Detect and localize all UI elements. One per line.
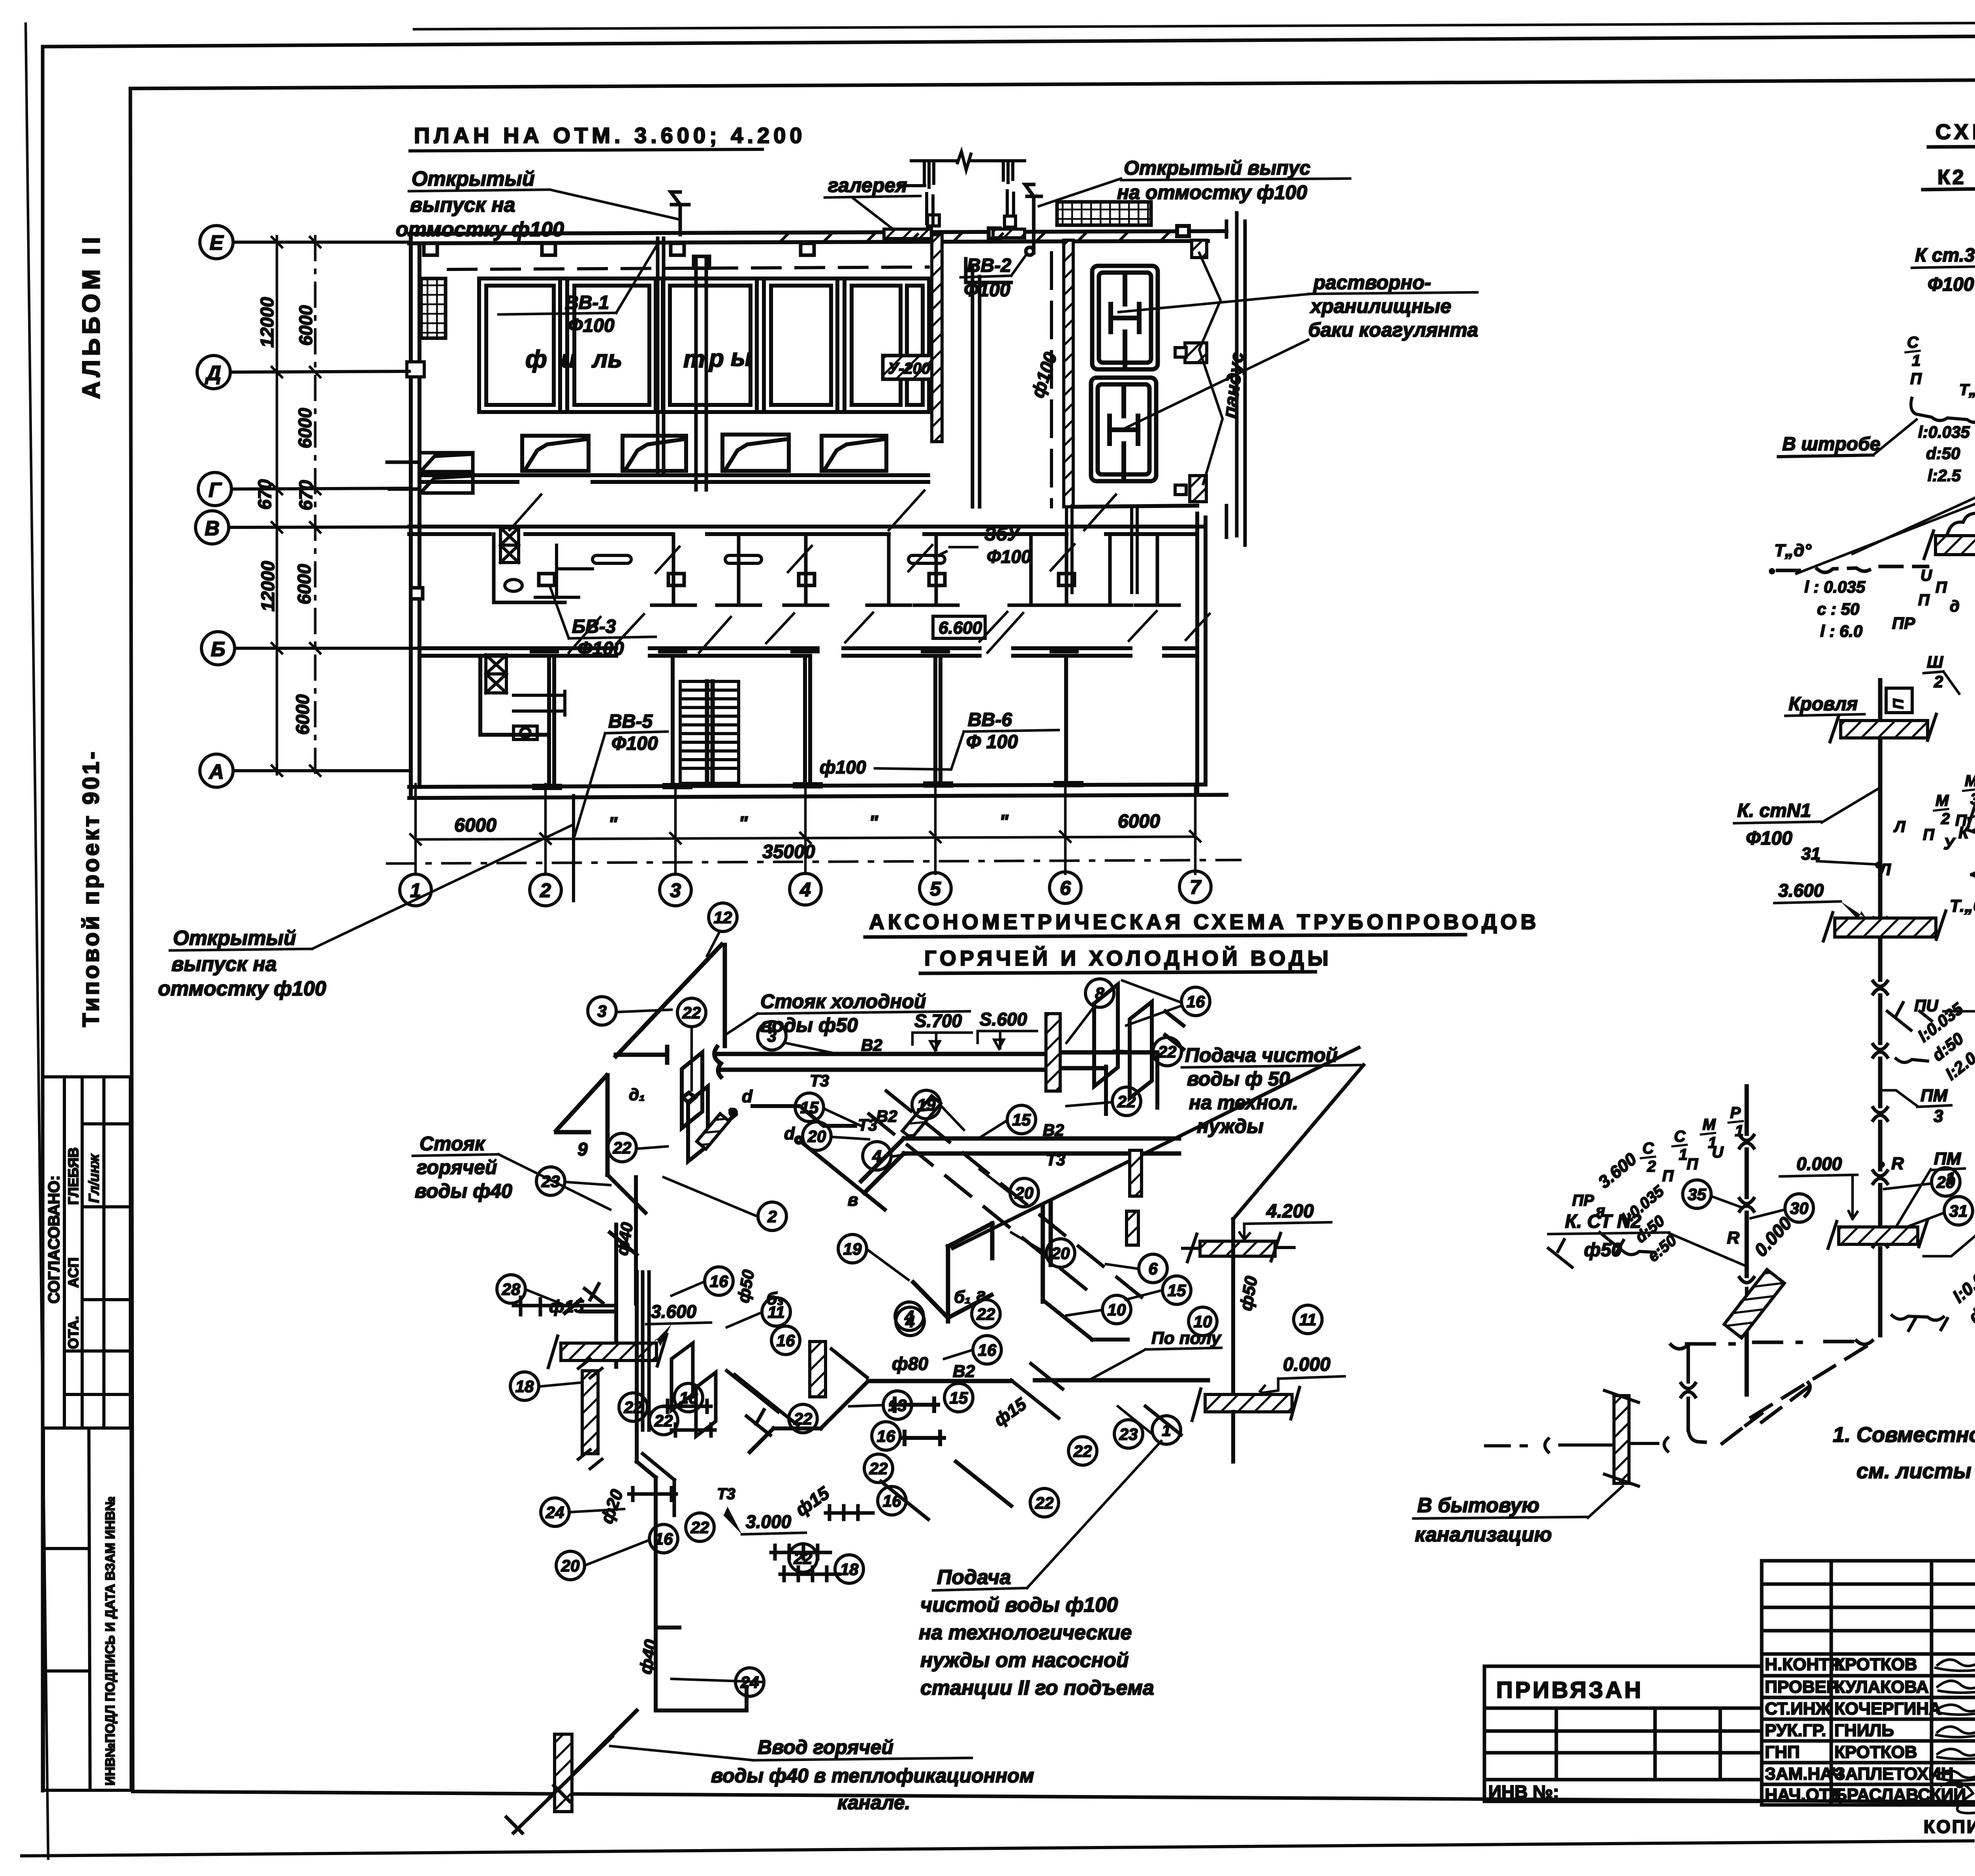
lower room partitions: T-posts row V-B xyxy=(494,534,1179,605)
grating top-left crosshatched xyxy=(421,278,446,338)
svg-text:20: 20 xyxy=(807,1127,826,1146)
svg-text:22: 22 xyxy=(654,1411,673,1430)
svg-text:Т.„б: Т.„б xyxy=(1950,896,1975,916)
svg-text:18: 18 xyxy=(840,1560,859,1579)
svg-text:АКСОНОМЕТРИЧЕСКАЯ СХЕМА ТРУБОП: АКСОНОМЕТРИЧЕСКАЯ СХЕМА ТРУБОПРОВОДОВ xyxy=(869,910,1540,934)
svg-text:22: 22 xyxy=(794,1549,813,1567)
svg-text:Стояк: Стояк xyxy=(419,1133,486,1155)
svg-text:Л: Л xyxy=(1893,818,1906,835)
svg-text:Т3: Т3 xyxy=(1046,1150,1065,1169)
svg-text:Ф100: Ф100 xyxy=(1746,828,1793,849)
svg-text:А: А xyxy=(208,760,224,783)
anchors zigzag leader xyxy=(1199,253,1223,484)
filter hall block xyxy=(479,278,929,412)
label coagulant tanks xyxy=(1308,271,1478,341)
hatched wall B xyxy=(1064,240,1073,507)
wall top outer xyxy=(409,231,1226,234)
svg-text:Ф100: Ф100 xyxy=(577,638,624,659)
svg-text:3: 3 xyxy=(670,879,681,901)
svg-text:6000: 6000 xyxy=(1118,811,1160,832)
svg-text:7: 7 xyxy=(1190,876,1202,898)
fractions near stack top xyxy=(1893,771,1975,843)
svg-text:19: 19 xyxy=(843,1240,862,1258)
thin diagonals xyxy=(1796,481,1975,574)
door swing strokes above B wall xyxy=(616,544,1209,644)
svg-text:9: 9 xyxy=(577,1139,588,1159)
big parallelogram plane xyxy=(953,1048,1364,1248)
svg-text:К. стN1: К. стN1 xyxy=(1737,800,1811,821)
svg-text:выпуск на: выпуск на xyxy=(171,953,277,976)
coagulant tank 2 xyxy=(1091,378,1156,481)
svg-text:я: я xyxy=(1595,1202,1605,1219)
svg-text:Ф100: Ф100 xyxy=(568,315,615,336)
svg-text:16: 16 xyxy=(978,1341,997,1359)
lower room partitions: row B-A xyxy=(480,656,1066,784)
svg-text:М: М xyxy=(1965,772,1975,790)
table B inventory strip xyxy=(43,1428,131,1790)
outlet riser top-left of gallery xyxy=(1025,184,1041,255)
riser under 4.200 xyxy=(1231,1219,1235,1414)
svg-text:Открытый выпус: Открытый выпус xyxy=(1124,157,1311,179)
svg-text:22: 22 xyxy=(624,1398,643,1417)
svg-text:3: 3 xyxy=(767,1027,776,1045)
hatch bar under 0.000 right xyxy=(1839,1227,1918,1244)
svg-text:S.700: S.700 xyxy=(914,1010,962,1031)
svg-text:ПРОВЕР.: ПРОВЕР. xyxy=(1765,1677,1840,1697)
grating strip top xyxy=(1057,202,1151,225)
svg-text:Ф100: Ф100 xyxy=(964,280,1010,301)
hatched slant plate xyxy=(1967,764,1975,837)
svg-text:ОТА.: ОТА. xyxy=(65,1316,81,1349)
hatched wall A xyxy=(932,235,942,442)
table A congratulation xyxy=(43,1077,130,1428)
corridor wall G row xyxy=(419,475,928,482)
svg-text:23: 23 xyxy=(541,1172,560,1191)
podacha chistoy 100 label xyxy=(919,1566,1154,1699)
standpipe through filters col3 xyxy=(658,238,709,490)
bottom grid circles xyxy=(400,871,1211,906)
big triangle riser xyxy=(616,945,725,1063)
pandus ramp lines xyxy=(1226,213,1245,545)
label: open outlet top-right xyxy=(1117,157,1311,203)
svg-text:": " xyxy=(739,813,748,834)
svg-text:20: 20 xyxy=(561,1556,580,1575)
svg-text:М: М xyxy=(1702,1116,1716,1133)
hot water stand label xyxy=(415,1133,512,1202)
svg-text:на технол.: на технол. xyxy=(1189,1091,1298,1114)
svg-text:3: 3 xyxy=(597,1002,606,1020)
Sh/2 M/5 xyxy=(1927,653,1975,695)
svg-text:ПМ: ПМ xyxy=(1920,1086,1948,1105)
svg-text:16: 16 xyxy=(777,1331,795,1350)
svg-text:Ш: Ш xyxy=(1927,653,1943,671)
svg-text:нужды: нужды xyxy=(1197,1115,1264,1137)
svg-text:10: 10 xyxy=(1194,1312,1212,1331)
label VV-3 xyxy=(572,616,624,659)
vertical partition between A and B xyxy=(966,259,1011,507)
svg-text:В штробе: В штробе xyxy=(1782,434,1880,455)
svg-text:12: 12 xyxy=(714,908,732,927)
svg-text:0.000: 0.000 xyxy=(1796,1153,1842,1174)
svg-text:1: 1 xyxy=(1679,1146,1687,1163)
privyazan box xyxy=(1484,1666,1762,1801)
svg-text:1: 1 xyxy=(1946,1169,1955,1188)
svg-text:ВВ-1: ВВ-1 xyxy=(565,292,609,313)
svg-text:С: С xyxy=(1674,1128,1686,1145)
svg-text:П: П xyxy=(1910,370,1922,388)
svg-text:d:50: d:50 xyxy=(1926,444,1960,463)
small triangle riser xyxy=(556,1075,608,1175)
svg-text:отмостку ф100: отмостку ф100 xyxy=(158,977,326,1000)
svg-text:6.600: 6.600 xyxy=(939,618,982,638)
svg-text:11: 11 xyxy=(1299,1310,1317,1329)
circle 29 / 30 / 31 / 35 second part xyxy=(1932,1168,1960,1196)
svg-text:4.200: 4.200 xyxy=(1266,1201,1314,1222)
bottom dimension lines xyxy=(387,784,1240,874)
PM/3 fraction xyxy=(1920,1086,1948,1126)
svg-text:ИНВ №:: ИНВ №: xyxy=(1488,1782,1559,1802)
svg-text:6000: 6000 xyxy=(295,408,315,448)
svg-text:22: 22 xyxy=(1073,1442,1092,1460)
coagulant tank 1 xyxy=(1092,266,1158,369)
radiator racks xyxy=(771,1481,928,1581)
label 6.600 boxed xyxy=(933,616,985,638)
svg-text:ф: ф xyxy=(525,346,547,373)
svg-text:У-200: У-200 xyxy=(888,360,930,377)
svg-text:ПР: ПР xyxy=(1892,614,1915,632)
flange plates cluster left xyxy=(608,1052,708,1367)
window slot left wall xyxy=(407,362,424,377)
svg-text:19: 19 xyxy=(917,1095,936,1114)
label: open outlet top-left xyxy=(396,167,564,241)
label VV-6 xyxy=(966,709,1018,753)
vertical hatched walls in axon low xyxy=(582,1371,598,1454)
svg-text:16: 16 xyxy=(883,1492,901,1510)
svg-text:16: 16 xyxy=(710,1272,728,1291)
left risers vertical xyxy=(565,1232,656,1541)
column squares on V wall xyxy=(539,574,555,585)
svg-text:БРАСЛАВСКИЙ: БРАСЛАВСКИЙ xyxy=(1834,1784,1966,1804)
v bytovuyu bottom label xyxy=(1415,1494,1552,1546)
svg-text:20: 20 xyxy=(1051,1244,1070,1263)
label: open outlet bottom-left xyxy=(158,927,326,1000)
svg-text:6000: 6000 xyxy=(292,694,313,735)
podacha chistoy 50 label xyxy=(1185,1044,1338,1137)
svg-text:1. Совместно с данным чертежом: 1. Совместно с данным чертежом xyxy=(1833,1423,1975,1447)
backwash tanks row xyxy=(522,435,886,471)
label VV-1 xyxy=(565,292,615,336)
svg-text:станции II го подъемa: станции II го подъемa xyxy=(920,1677,1154,1699)
svg-text:Л: Л xyxy=(1878,860,1891,879)
svg-text:АЛЬБОМ II: АЛЬБОМ II xyxy=(78,233,105,399)
svg-text:Стояк холодной: Стояк холодной xyxy=(760,990,926,1012)
svg-text:Т3: Т3 xyxy=(717,1485,735,1503)
svg-text:хранилищные: хранилищные xyxy=(1309,295,1451,317)
svg-text:4: 4 xyxy=(905,1312,914,1331)
svg-text:П: П xyxy=(1662,1167,1674,1185)
svg-text:Подача чистой: Подача чистой xyxy=(1185,1044,1338,1066)
svg-text:воды ф40 в теплофикационном: воды ф40 в теплофикационном xyxy=(711,1765,1034,1787)
wall bottom xyxy=(409,785,1206,787)
svg-text:4: 4 xyxy=(872,1147,881,1165)
svg-text:22: 22 xyxy=(690,1518,709,1537)
svg-text:15: 15 xyxy=(1168,1281,1186,1300)
dashed plane diagonals xyxy=(869,1091,1145,1300)
svg-text:СХЕМА КАНАЛИЗАЦИИ: СХЕМА КАНАЛИЗАЦИИ xyxy=(1935,120,1975,144)
svg-text:С: С xyxy=(1642,1140,1654,1157)
svg-text:ПМ: ПМ xyxy=(1934,1149,1962,1169)
svg-text:воды ф40: воды ф40 xyxy=(415,1180,512,1202)
svg-text:22: 22 xyxy=(613,1138,632,1157)
svg-text:2: 2 xyxy=(1934,672,1943,691)
bottom-left hatched bar + intake diagonal xyxy=(555,1734,572,1812)
svg-text:ВВ-2: ВВ-2 xyxy=(967,255,1011,276)
svg-text:6000: 6000 xyxy=(454,815,497,836)
svg-text:воды ф 50: воды ф 50 xyxy=(1187,1068,1290,1090)
svg-text:канале.: канале. xyxy=(837,1791,910,1814)
svg-text:12000: 12000 xyxy=(257,297,277,348)
f15 riser cluster right of f80 xyxy=(1011,1364,1181,1435)
top wall hatch ticks xyxy=(780,233,1168,242)
svg-text:4: 4 xyxy=(799,879,811,901)
signature rows xyxy=(1765,1655,1966,1804)
filters label xyxy=(525,344,752,373)
wall right lower xyxy=(1195,514,1199,795)
lower dashed runs xyxy=(1671,1340,1877,1443)
slant hatch plate on stack 2 xyxy=(1724,1270,1784,1338)
svg-text:": " xyxy=(869,812,878,833)
inner frame bottom xyxy=(133,1791,1975,1805)
svg-text:Н.КОНТР.: Н.КОНТР. xyxy=(1765,1655,1843,1674)
label VV-2 xyxy=(964,255,1011,301)
S700 S600 marks xyxy=(914,1009,1027,1031)
wall left xyxy=(409,234,413,798)
svg-text:С: С xyxy=(1907,334,1919,351)
svg-text:2: 2 xyxy=(767,1207,777,1226)
svg-text:выпуск на: выпуск на xyxy=(410,194,515,216)
main double pipe V2/T3 xyxy=(714,1047,1157,1077)
svg-text:на отмостку ф100: на отмостку ф100 xyxy=(1117,181,1307,203)
svg-text:28: 28 xyxy=(502,1280,521,1298)
svg-text:6: 6 xyxy=(1060,877,1071,899)
second double pipe xyxy=(861,1138,1179,1193)
svg-text:16: 16 xyxy=(877,1427,895,1445)
svg-text:нужды от насосной: нужды от насосной xyxy=(920,1649,1129,1672)
note text xyxy=(1833,1423,1975,1483)
svg-text:13: 13 xyxy=(888,1396,907,1415)
svg-text:": " xyxy=(608,814,618,835)
svg-text:22: 22 xyxy=(1035,1494,1054,1512)
svg-text:р: р xyxy=(708,345,724,372)
svg-text:6000: 6000 xyxy=(295,305,316,346)
svg-text:ф80: ф80 xyxy=(892,1353,928,1374)
signatures squiggles xyxy=(1935,1660,1975,1813)
svg-text:АСП: АСП xyxy=(65,1257,81,1288)
svg-text:16: 16 xyxy=(655,1530,673,1548)
svg-text:U: U xyxy=(1920,567,1932,584)
svg-text:К: К xyxy=(1958,823,1970,842)
downpipes from tank room xyxy=(1066,507,1137,593)
small tree at stack 2500 xyxy=(1887,1003,1932,1063)
svg-text:0.000: 0.000 xyxy=(1283,1354,1330,1375)
svg-text:Ф100: Ф100 xyxy=(987,546,1031,567)
paper left edge xyxy=(26,24,48,1859)
svg-text:3: 3 xyxy=(1934,1106,1943,1126)
label VV-5 xyxy=(608,711,658,754)
svg-text:15: 15 xyxy=(950,1389,968,1407)
WC fixtures cross boxes xyxy=(486,528,592,739)
svg-text:R: R xyxy=(1891,1154,1904,1173)
svg-text:Б: Б xyxy=(211,638,226,661)
bottom hatch vertical bar xyxy=(1614,1396,1629,1483)
svg-text:растворно-: растворно- xyxy=(1313,271,1431,294)
circled refs axon xyxy=(497,903,1322,1696)
svg-text:18: 18 xyxy=(515,1377,534,1396)
svg-text:8: 8 xyxy=(1095,984,1104,1003)
gallery line with break and risers xyxy=(884,152,1025,239)
svg-text:22: 22 xyxy=(794,1409,813,1428)
svg-text:1: 1 xyxy=(1735,1122,1744,1140)
svg-text:Т„Г°: Т„Г° xyxy=(1959,381,1975,399)
svg-text:Открытый: Открытый xyxy=(412,167,535,190)
svg-text:ы: ы xyxy=(731,344,752,371)
svg-text:22: 22 xyxy=(1158,1042,1177,1061)
svg-text:Подача: Подача xyxy=(937,1566,1011,1589)
svg-text:ЗАПЛЕТОХИН: ЗАПЛЕТОХИН xyxy=(1834,1764,1954,1784)
right wall anchors xyxy=(1175,240,1207,502)
svg-text:l : 0.035: l : 0.035 xyxy=(1804,578,1866,596)
svg-text:ГНИЛЬ: ГНИЛЬ xyxy=(1834,1721,1894,1740)
svg-text:отмостку ф100: отмостку ф100 xyxy=(396,218,564,241)
svg-text:Типовой проект 901-: Типовой проект 901- xyxy=(78,749,104,1027)
right riser zigzag plates xyxy=(1094,984,1183,1114)
VV-5 outlet pipe below wall xyxy=(572,796,575,901)
B row wall with door gaps xyxy=(419,648,1197,656)
svg-text:d: d xyxy=(742,1087,753,1106)
svg-text:6000: 6000 xyxy=(294,564,314,604)
svg-text:16: 16 xyxy=(679,1389,698,1407)
gallery top wall xyxy=(989,226,1189,239)
inner frame left xyxy=(130,88,133,1791)
inner frame top xyxy=(130,77,1975,88)
svg-text:НАЧ.ОТД: НАЧ.ОТД xyxy=(1765,1785,1842,1804)
svg-text:670: 670 xyxy=(254,479,275,510)
svg-text:В2: В2 xyxy=(1043,1121,1064,1139)
f80 horizontal run xyxy=(868,1380,1208,1381)
svg-text:ВВ-6: ВВ-6 xyxy=(968,709,1012,730)
svg-text:КОПИРОВАЛ КАПШУНАРЕ: КОПИРОВАЛ КАПШУНАРЕ xyxy=(1924,1816,1975,1837)
tank room bottom wall xyxy=(1073,506,1197,507)
svg-text:15: 15 xyxy=(800,1098,819,1117)
svg-text:РУК.ГР.: РУК.ГР. xyxy=(1765,1721,1826,1740)
svg-text:в: в xyxy=(848,1190,858,1210)
svg-text:ГЛЕБЯВ: ГЛЕБЯВ xyxy=(65,1147,81,1205)
K st N2 stack xyxy=(1745,1086,1749,1394)
cold water stand label xyxy=(760,990,926,1036)
svg-text:баки коагулянта: баки коагулянта xyxy=(1308,319,1478,341)
leader lines to circles xyxy=(525,931,1181,1682)
svg-text:ПЛАН НА ОТМ. 3.600; 4.200: ПЛАН НА ОТМ. 3.600; 4.200 xyxy=(414,123,806,148)
svg-text:Ввод горячей: Ввод горячей xyxy=(758,1736,893,1758)
corridor wall V row xyxy=(409,527,1206,534)
svg-text:22: 22 xyxy=(682,1003,701,1022)
svg-text:Ф 100: Ф 100 xyxy=(966,732,1018,753)
svg-text:К ст.3: К ст.3 xyxy=(1915,245,1975,266)
extra riser detail cluster xyxy=(513,1272,867,1515)
upper small grid xyxy=(1762,1561,1975,1805)
left wall fixtures xyxy=(387,453,473,493)
svg-text:ИНВ№ПОДЛ ПОДПИСЬ И ДАТА ВЗАМ И: ИНВ№ПОДЛ ПОДПИСЬ И ДАТА ВЗАМ ИНВ№ xyxy=(103,1496,117,1786)
svg-text:ВВ-5: ВВ-5 xyxy=(608,711,653,732)
svg-text:23: 23 xyxy=(1119,1425,1138,1443)
U-200 hatched box xyxy=(883,356,933,379)
svg-text:Р: Р xyxy=(1730,1104,1741,1121)
svg-text:К2: К2 xyxy=(1937,166,1966,189)
svg-text:Кровля: Кровля xyxy=(1789,694,1858,715)
svg-text:1: 1 xyxy=(1162,1421,1171,1439)
svg-text:Г: Г xyxy=(209,479,222,502)
svg-text:БВ-3: БВ-3 xyxy=(572,616,616,637)
svg-text:U: U xyxy=(1712,1144,1724,1161)
svg-text:6: 6 xyxy=(1148,1259,1158,1278)
svg-text:2: 2 xyxy=(1941,810,1950,828)
svg-text:ПР: ПР xyxy=(1572,1192,1594,1209)
svg-text:3.000: 3.000 xyxy=(746,1511,792,1532)
svg-text:30: 30 xyxy=(1790,1199,1809,1217)
vertical riser pair center xyxy=(913,1202,1051,1321)
corridor louver slots xyxy=(592,555,945,563)
label ZV-U xyxy=(984,524,1031,567)
svg-text:ль: ль xyxy=(591,346,622,373)
C/1 tree left xyxy=(1907,334,1975,406)
svg-text:Т„д°: Т„д° xyxy=(1774,541,1811,560)
svg-text:": " xyxy=(999,811,1009,832)
paper top edge xyxy=(414,21,1975,29)
svg-text:l : 6.0: l : 6.0 xyxy=(1820,622,1862,640)
svg-text:Д: Д xyxy=(205,362,221,385)
svg-text:S.600: S.600 xyxy=(980,1009,1027,1029)
svg-text:горячей: горячей xyxy=(417,1156,497,1178)
svg-text:3.600: 3.600 xyxy=(651,1301,697,1322)
svg-text:l:0.035: l:0.035 xyxy=(1918,423,1970,441)
vvod label xyxy=(711,1736,1034,1814)
svg-text:ГОРЯЧЕЙ И ХОЛОДНОЙ ВОДЫ: ГОРЯЧЕЙ И ХОЛОДНОЙ ВОДЫ xyxy=(924,946,1332,970)
svg-text:У: У xyxy=(1943,834,1956,853)
svg-text:Т3: Т3 xyxy=(810,1071,829,1090)
svg-text:11: 11 xyxy=(767,1303,785,1321)
svg-text:галерея: галерея xyxy=(828,174,907,196)
svg-text:5: 5 xyxy=(930,878,941,900)
svg-text:СТ.ИНЖ: СТ.ИНЖ xyxy=(1765,1699,1831,1718)
dashed crane line in filter hall xyxy=(448,267,928,269)
svg-text:на технологические: на технологические xyxy=(919,1621,1132,1644)
hatched crossing mid-left xyxy=(697,1114,729,1149)
valve tees middle xyxy=(664,1371,778,1436)
svg-text:15: 15 xyxy=(1012,1110,1031,1129)
svg-text:35000: 35000 xyxy=(762,841,815,862)
svg-text:см. листы ВК-2, ВК-4.: см. листы ВК-2, ВК-4. xyxy=(1856,1459,1975,1483)
svg-text:35: 35 xyxy=(1688,1185,1706,1204)
svg-text:Ф100: Ф100 xyxy=(611,733,658,754)
stairwell xyxy=(680,681,739,783)
svg-text:c : 50: c : 50 xyxy=(1817,600,1859,618)
svg-text:ЗАМ.НАЧ: ЗАМ.НАЧ xyxy=(1765,1764,1843,1784)
svg-text:М: М xyxy=(1935,792,1949,809)
svg-text:КУЛАКОВА: КУЛАКОВА xyxy=(1834,1677,1929,1697)
svg-text:П: П xyxy=(1923,826,1935,843)
svg-text:Е: Е xyxy=(210,231,224,254)
door arcs lower rooms xyxy=(510,491,1116,653)
